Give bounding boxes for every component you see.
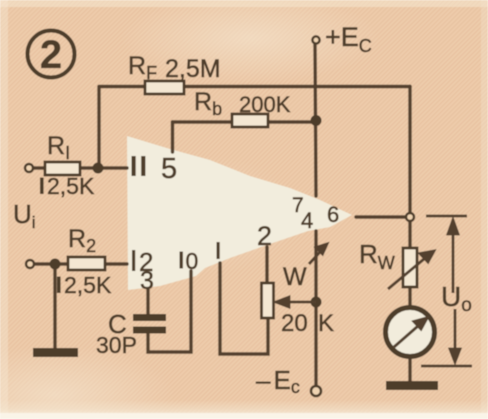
meter needle: [394, 318, 427, 347]
wire: vertical from RF rail down to input node: [97, 87, 100, 169]
wire: pin 3 down to C: [146, 289, 149, 315]
potentiometer W box: [262, 283, 274, 318]
dimension: Uo up arrow: [448, 220, 458, 293]
wire: pin 6 to output node: [356, 215, 405, 218]
wire: pin 1 down to W bottom: [220, 263, 268, 354]
svg-text:20: 20: [281, 310, 308, 337]
terminal: Ui input 1: [25, 164, 33, 172]
pin 11: [132, 156, 146, 176]
pin 10: [180, 252, 183, 269]
wire: pin 5 drop: [171, 122, 174, 152]
wire: RW to meter: [408, 287, 411, 307]
RW adjustment arrow: [388, 251, 434, 289]
wire: RF feedback top rail: [100, 85, 410, 88]
dimension: Uo top reference bar: [426, 215, 467, 218]
svg-text:200K: 200K: [239, 92, 291, 117]
svg-text:K: K: [318, 310, 334, 337]
svg-text:0: 0: [186, 248, 199, 274]
dimension: Uo down arrow: [450, 309, 460, 362]
ground: left ground bar: [33, 348, 78, 357]
figure label 2 in circle: [28, 31, 75, 78]
terminal: output node circle: [406, 213, 414, 221]
arrow on supply line near pin 4: [309, 244, 327, 264]
wire: +Ec supply down to pin 7: [315, 44, 316, 196]
svg-text:2: 2: [40, 33, 62, 77]
resistor R2 box: [68, 257, 105, 270]
svg-text:6: 6: [327, 202, 339, 227]
op-amp U1 triangle body: [127, 136, 352, 290]
resistor RF box: [145, 81, 184, 94]
wire: right output rail down: [408, 87, 411, 213]
svg-text:30P: 30P: [96, 332, 137, 358]
svg-text:5: 5: [161, 153, 177, 185]
node: R1/RF junction: [93, 163, 104, 174]
wire: pin 2 down to W top: [265, 247, 268, 283]
wire: meter to ground: [408, 357, 411, 382]
node: R2 input junction: [50, 259, 61, 270]
svg-text:2,5M: 2,5M: [165, 55, 221, 83]
pin 1: [217, 242, 220, 259]
W wiper arrow: [276, 297, 316, 307]
pin 12: [132, 250, 135, 271]
svg-text:2,5K: 2,5K: [64, 272, 112, 298]
wire: pin 4 down to -Ec terminal: [314, 231, 317, 386]
terminal: +Ec: [312, 36, 319, 43]
node: W wiper junction: [311, 297, 322, 308]
wire: R1 input to pin 11: [33, 166, 127, 169]
ground: meter ground bar: [386, 381, 438, 390]
wire: C bottom to pin 10: [148, 271, 191, 352]
meter M1: [386, 308, 435, 357]
value 12,5K (R1): [40, 178, 44, 195]
wire: R2 node down to ground: [53, 264, 56, 349]
terminal: Ui input 2: [26, 260, 34, 268]
svg-text:2,5K: 2,5K: [47, 173, 95, 199]
capacitor C plates: [133, 314, 166, 321]
node: Rb/+Ec junction: [311, 115, 322, 126]
potentiometer RW box: [403, 248, 417, 287]
resistor Rb box: [232, 114, 268, 127]
value 12,5K (R2): [57, 277, 61, 294]
svg-text:W: W: [283, 263, 307, 291]
svg-text:4: 4: [301, 208, 313, 233]
dimension: Uo bottom reference bar: [421, 365, 472, 368]
resistor R1 box: [45, 162, 80, 175]
svg-text:2: 2: [257, 221, 272, 251]
wire: R2 input to pin 12: [34, 262, 127, 265]
wire: Rb rail to pin 5: [173, 120, 317, 123]
svg-text:3: 3: [140, 267, 154, 295]
terminal: -Ec: [311, 386, 321, 396]
wire: output circle to RW: [408, 222, 411, 248]
